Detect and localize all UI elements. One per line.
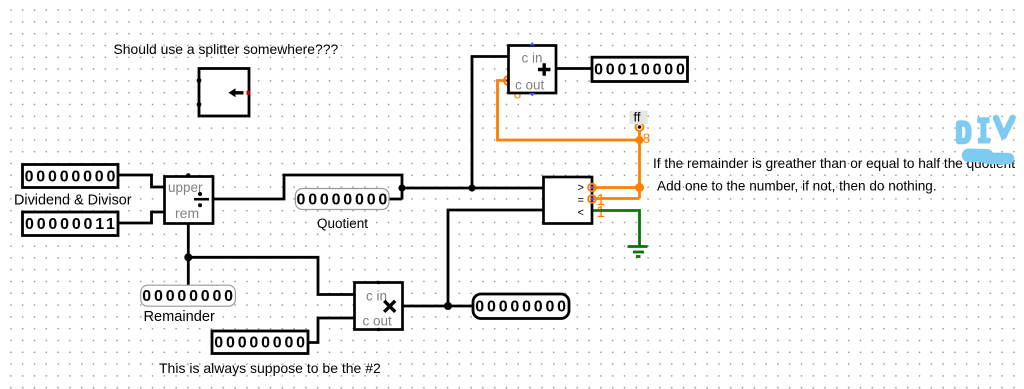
svg-text:c out: c out (363, 314, 393, 329)
svg-text:00000000: 00000000 (475, 299, 569, 316)
svg-text:00000000: 00000000 (214, 335, 308, 352)
svg-text:8: 8 (643, 131, 650, 146)
svg-text:Dividend & Divisor: Dividend & Divisor (14, 193, 132, 209)
svg-text:Should use a splitter somewher: Should use a splitter somewhere??? (114, 41, 339, 57)
svg-text:00000000: 00000000 (25, 168, 119, 185)
svg-text:c out: c out (515, 77, 545, 92)
svg-text:ff: ff (634, 110, 641, 125)
svg-text:1: 1 (597, 204, 606, 221)
svg-text:This is always suppose to be t: This is always suppose to be the #2 (159, 360, 381, 376)
svg-text:=: = (578, 195, 584, 207)
svg-text:c in: c in (522, 51, 543, 66)
svg-text:upper: upper (168, 180, 203, 195)
svg-text:rem: rem (175, 205, 199, 221)
svg-text:00000000: 00000000 (297, 191, 391, 208)
svg-text:<: < (578, 207, 584, 219)
svg-text:00010000: 00010000 (594, 62, 688, 79)
svg-text:If the remainder is greather t: If the remainder is greather than or equ… (653, 156, 1015, 171)
svg-text:Quotient: Quotient (317, 216, 368, 231)
svg-text:00000011: 00000011 (25, 216, 118, 233)
svg-text:Add one to the number, if not,: Add one to the number, if not, then do n… (657, 178, 937, 193)
svg-text:>: > (578, 182, 584, 194)
svg-text:Remainder: Remainder (144, 309, 216, 325)
svg-text:00000000: 00000000 (142, 288, 236, 305)
